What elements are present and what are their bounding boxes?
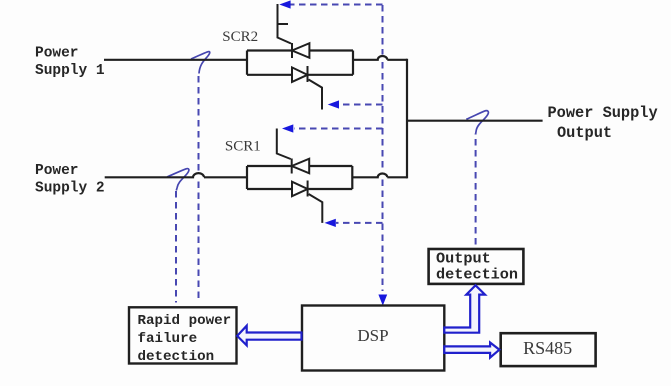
dashed sense line from power supply 1 tap [198,76,200,303]
arrowhead into DSP top [378,295,387,306]
svg-text:Rapid power: Rapid power [138,313,232,329]
hollow arrow DSP to RS485 [444,343,499,358]
svg-text:Power: Power [35,46,79,62]
SCR1 upper gate lead [277,129,291,160]
arrowhead at SCR2 lower gate [328,100,339,108]
svg-text:SCR2: SCR2 [222,29,258,45]
svg-text:detection: detection [436,266,518,284]
wire: SCR1 output with hop over dashed trunk [352,174,407,178]
svg-text:Supply 2: Supply 2 [35,181,105,197]
box: Rapid power failure detection [129,307,237,363]
SCR2 lower gate lead [309,80,323,110]
hollow arrow DSP to output detection (L shape up) [444,285,485,332]
box: Output detection [429,249,524,284]
wire: power supply output line [407,120,543,122]
dashed branch to SCR1 upper gate [294,128,383,130]
tap loop on power supply 1 line [191,52,210,74]
svg-text:Supply 1: Supply 1 [35,63,105,79]
box: RS485 [501,333,596,366]
tap loop on output line [466,111,488,134]
dashed sense line from output tap [475,134,477,245]
SCR module SCR2 frame [247,51,353,75]
SCR1 upper thyristor (points left) [292,159,310,174]
SCR2 upper thyristor (points left) [292,43,309,58]
SCR2 upper gate lead with tick [278,4,292,44]
SCR1 lower thyristor (points right) [292,181,308,197]
svg-text:RS485: RS485 [523,338,572,358]
svg-text:failure: failure [138,331,198,347]
arrowhead at SCR2 upper gate [279,0,290,8]
svg-text:Output: Output [557,124,612,142]
wire: SCR2 output with hop over dashed trunk [353,56,407,60]
wire: output bus vertical [406,59,408,179]
box: DSP [302,306,444,371]
arrowhead at SCR1 lower gate [325,219,336,227]
SCR module SCR1 frame [247,166,352,189]
svg-text:SCR1: SCR1 [225,138,261,154]
dashed branch to SCR2 upper gate [290,4,383,6]
wire: power supply 2 input with hop over sense line [105,173,246,177]
SCR2 lower thyristor (points right) [292,66,308,82]
svg-text:DSP: DSP [357,326,388,345]
SCR1 lower gate lead [309,194,323,223]
svg-text:Power Supply: Power Supply [548,104,658,122]
wire: power supply 1 input [104,59,246,61]
dashed branch to SCR1 lower gate [336,222,383,224]
dashed branch to SCR2 lower gate [342,104,383,106]
tap loop on power supply 2 line [167,169,189,191]
arrowhead at SCR1 upper gate [282,124,293,132]
svg-text:detection: detection [138,349,215,365]
svg-text:Power: Power [35,163,79,179]
dashed control net from DSP (vertical trunk) [382,5,384,291]
hollow arrow DSP to rapid-failure box [237,326,301,346]
dashed sense line from power supply 2 tap [175,191,177,303]
